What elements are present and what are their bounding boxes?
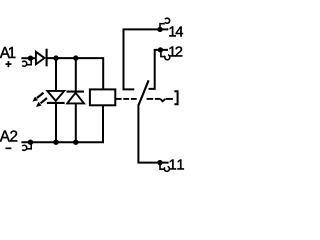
svg-text:1: 1 [176,158,184,174]
svg-text:2: 2 [10,128,19,145]
terminal clamp 12 [161,50,170,60]
junction dot LED top [53,55,58,60]
wire LED lower [55,103,57,142]
junction dot LED bottom [53,140,58,145]
LED V1 [47,91,65,103]
wire D2 lower [75,103,77,142]
svg-text:4: 4 [175,24,183,40]
junction dot 11 [157,160,162,165]
wire bottom rail [21,105,103,142]
wire common 11 [138,105,168,163]
junction dot D2 bottom [73,140,78,145]
mechanical link dash 5 [155,98,160,100]
svg-text:2: 2 [175,44,183,60]
mechanical link end bracket [174,91,177,104]
terminal clamp A2 [22,142,31,150]
wire D2 upper [75,58,77,92]
junction dot 14 [157,27,162,32]
wire LED upper [55,58,57,91]
svg-text:1: 1 [8,45,17,62]
diode D1 (series) [36,49,47,67]
mechanical link dash 6 [166,98,173,100]
terminal clamp 14 [160,18,170,29]
contact blade [138,80,148,105]
junction dot A1 [28,56,33,61]
polarity minus sign [6,147,12,149]
LED emission arrow 2 [36,98,47,107]
junction dot 12 [158,47,163,52]
junction dot D2 top [73,55,78,60]
junction dot A2 [28,140,33,145]
diode D2 (flyback) [67,92,85,104]
wire A1 [21,57,36,59]
LED emission arrow 1 [32,93,43,102]
wire branch 12 with NC contact stub [149,50,168,89]
wire branch 14 with NO contact stub [124,29,169,89]
wire top rail [47,58,104,89]
mechanical link detent notch [160,99,165,101]
terminal clamp 11 [160,163,169,172]
relay coil K1 [90,89,115,105]
mechanical link dashes left [116,98,137,100]
polarity plus sign [6,61,12,67]
terminal clamp A1 [22,58,31,66]
mechanical link dash 4 [147,98,154,100]
